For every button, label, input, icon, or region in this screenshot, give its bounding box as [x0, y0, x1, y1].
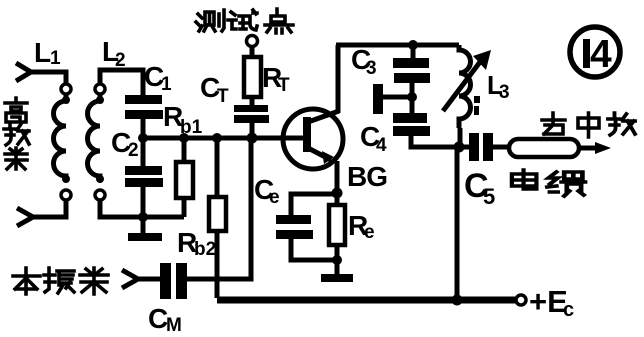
node junction base-CT-CM [247, 133, 258, 144]
wire Ce bottom [291, 239, 337, 260]
node L1 top terminal [61, 84, 71, 94]
svg-text:e: e [269, 187, 280, 208]
svg-text:2: 2 [128, 140, 139, 161]
wire input arrow local oscillator [122, 270, 138, 288]
capacitor Ce [276, 215, 313, 239]
wire collector riser [336, 45, 341, 113]
svg-text:L: L [34, 37, 51, 68]
wire C3-C4 junction [410, 83, 415, 113]
svg-text:2: 2 [115, 50, 126, 71]
node +Ec terminal [516, 295, 526, 305]
svg-text:+E: +E [529, 284, 568, 319]
svg-text:1: 1 [161, 74, 172, 95]
ground [321, 274, 353, 282]
wire CT to base [250, 123, 255, 138]
svg-text:M: M [166, 315, 182, 336]
label 高放来 (from RF amp) vertical [5, 98, 27, 122]
node junction C1-C2-base [138, 133, 148, 143]
capacitor C3 [393, 58, 430, 83]
svg-text:b2: b2 [194, 239, 216, 260]
node junction rail [452, 295, 463, 306]
cable sleeve [509, 139, 579, 157]
L3 core mark [474, 96, 480, 103]
wire input arrow bottom-left [17, 208, 33, 226]
label 测试点 (test point) [196, 10, 224, 31]
ground [128, 233, 162, 241]
node tap bar [373, 84, 383, 114]
svg-text:1: 1 [50, 48, 61, 69]
wire base to C2 [141, 138, 146, 166]
label 去中放 (to IF amp) [542, 113, 565, 134]
capacitor C4 [393, 113, 430, 136]
wire tank top rail [336, 43, 459, 48]
wire test point to RT [250, 47, 255, 58]
wire L2 bottom to ground rail [100, 200, 184, 217]
svg-text:5: 5 [483, 184, 495, 209]
wire C2 to bottom [141, 187, 146, 217]
wire from L1 bottom to lower arrow [32, 200, 66, 217]
node test point terminal [247, 36, 258, 47]
svg-text:3: 3 [499, 82, 510, 103]
wire ground stub emitter [335, 260, 340, 275]
node L2 bottom terminal [95, 190, 105, 200]
resistor Re [335, 193, 340, 205]
wire L3 bottom [458, 128, 463, 147]
svg-text:4: 4 [376, 135, 387, 156]
svg-text:e: e [364, 222, 375, 243]
wire C1 to base line [141, 119, 146, 138]
svg-text:4: 4 [590, 33, 612, 76]
node junction top rail C3 [408, 40, 418, 50]
node junction bottom wire [138, 212, 148, 222]
wire cable output [579, 146, 598, 151]
resistor Rb2 [212, 133, 222, 143]
wire RT to CT [250, 97, 255, 106]
wire L3 adjust arrow [443, 62, 480, 111]
wire +Ec rail [217, 297, 517, 304]
node Re bottom junction [332, 255, 342, 265]
node L2 winding joints [96, 96, 104, 104]
node L2 top terminal [95, 84, 105, 94]
capacitor C2 [125, 166, 163, 187]
wire Rb2 to +Ec rail [215, 231, 220, 298]
svg-text:T: T [278, 75, 290, 96]
capacitor CM [160, 263, 187, 299]
wire ground stub [141, 217, 146, 233]
wire C5 to cable [493, 145, 510, 150]
wire from top arrow to L1 [29, 72, 66, 83]
svg-text:3: 3 [366, 58, 377, 79]
node L1 bottom terminal [61, 190, 71, 200]
wire input arrow top-left [16, 63, 31, 81]
svg-text:BG: BG [347, 161, 387, 192]
resistor RT [244, 57, 261, 97]
wire junction to C5 [459, 145, 469, 150]
wire C3 stub [411, 45, 416, 58]
svg-text:c: c [563, 299, 574, 321]
wire emitter drop [335, 161, 340, 193]
wire from L2 top to C1 [100, 70, 143, 95]
wire tap stub [383, 95, 412, 100]
inductor L1 [53, 94, 66, 182]
capacitor C1 [125, 95, 163, 119]
figure number 14 [570, 27, 620, 77]
transistor BG [283, 109, 343, 169]
svg-text:b1: b1 [180, 117, 203, 138]
wire base line [143, 136, 283, 141]
wire tank bottom drop [455, 147, 460, 300]
label 本振来 (from local oscillator) [13, 268, 40, 294]
svg-text:T: T [217, 86, 229, 107]
wire CM to base riser [187, 138, 251, 279]
inductor L2 [88, 94, 101, 182]
wire C4 to tank bottom [411, 136, 459, 147]
capacitor CT [234, 105, 269, 123]
resistor Rb1 [179, 133, 189, 143]
capacitor C5 [469, 133, 493, 161]
node junction C3-C4 tap [407, 92, 417, 102]
inductor L3 [459, 45, 471, 128]
wire output arrowhead [595, 142, 611, 154]
wire LO arrow to CM [136, 277, 160, 282]
node emitter junction [332, 188, 343, 199]
node L1 winding joints [62, 96, 70, 104]
label 电缆 (cable) [512, 170, 537, 189]
node junction tank bottom [454, 142, 465, 153]
wire emitter to Ce [291, 194, 337, 215]
